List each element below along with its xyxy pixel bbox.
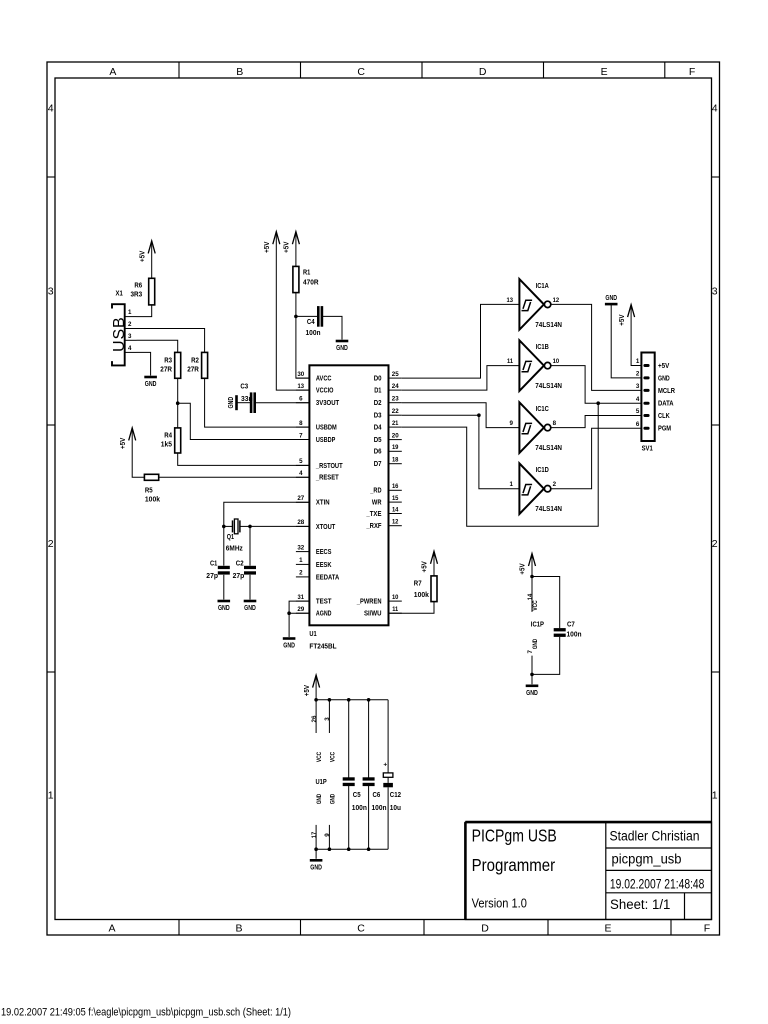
svg-text:9: 9 xyxy=(510,420,514,427)
U1 pin 27 XTIN xyxy=(296,495,330,507)
junction IC1P VCC / C7 xyxy=(530,575,534,579)
resistor R4 xyxy=(175,428,181,453)
svg-text:17: 17 xyxy=(311,831,318,838)
wire +5V to VCCIO pin 13 xyxy=(276,232,309,390)
resistor R5 xyxy=(144,474,158,480)
svg-text:15: 15 xyxy=(392,495,399,502)
svg-text:3: 3 xyxy=(712,286,718,298)
IC1P pin 14 VCC xyxy=(527,577,539,612)
svg-text:1k5: 1k5 xyxy=(161,442,172,449)
capacitor C12 electrolytic xyxy=(383,762,393,788)
svg-text:_RSTOUT: _RSTOUT xyxy=(315,463,343,470)
svg-text:_PWREN: _PWREN xyxy=(356,599,382,606)
wire C3 to 3V3OUT pin 6 xyxy=(256,402,310,404)
wire IC1P to ground xyxy=(531,674,533,684)
U1 pin 23 D2 xyxy=(374,396,402,408)
wire node to Q1 left xyxy=(224,525,233,527)
label R3 27R xyxy=(160,357,172,373)
X1 pin 2 stub xyxy=(125,321,137,328)
svg-text:D6: D6 xyxy=(374,449,382,456)
svg-text:27p: 27p xyxy=(233,573,245,580)
svg-text:A: A xyxy=(109,66,116,78)
U1 pin 20 D5 xyxy=(374,432,402,444)
svg-text:30: 30 xyxy=(297,371,304,378)
svg-text:U1: U1 xyxy=(309,631,316,638)
svg-text:2: 2 xyxy=(299,570,303,577)
wire +5V to U1P rail xyxy=(315,675,317,700)
junction TEST/AGND/GND xyxy=(287,611,291,615)
svg-text:20: 20 xyxy=(392,432,399,439)
label R1 470R xyxy=(303,270,319,287)
svg-text:C5: C5 xyxy=(353,792,361,799)
+5V supply at R7 xyxy=(422,551,438,572)
wire rail to C6 xyxy=(368,700,370,778)
capacitor C5 xyxy=(343,777,355,780)
svg-text:+5V: +5V xyxy=(139,250,146,262)
wire rail to C12 xyxy=(387,700,389,773)
label C7 100n xyxy=(567,622,582,639)
svg-text:+5V: +5V xyxy=(304,685,311,697)
connector SV1 body xyxy=(641,353,654,442)
svg-text:IC1P: IC1P xyxy=(531,622,544,629)
svg-text:1: 1 xyxy=(510,481,514,488)
svg-text:1: 1 xyxy=(712,790,718,802)
wire C2 to ground xyxy=(249,575,251,600)
wire node to ground xyxy=(288,613,290,637)
svg-text:13: 13 xyxy=(507,297,514,304)
U1 pin 11 SI/WU xyxy=(364,606,402,618)
wire R2 to USBDM pin 8 xyxy=(205,378,310,427)
U1P pin 26 VCC xyxy=(311,700,323,762)
wire X1 pin3 to R3 xyxy=(137,340,178,352)
svg-text:2: 2 xyxy=(553,481,557,488)
svg-text:2: 2 xyxy=(48,538,54,550)
wire D2 to IC1C input xyxy=(402,403,520,428)
svg-text:Programmer: Programmer xyxy=(472,855,556,875)
svg-text:100k: 100k xyxy=(414,592,429,599)
svg-text:R2: R2 xyxy=(191,357,199,364)
U1 pin 8 USBDM xyxy=(296,420,337,432)
SV1 pin 2 GND xyxy=(636,371,670,383)
svg-text:2: 2 xyxy=(128,321,132,328)
X1 pin 1 stub xyxy=(125,309,137,316)
svg-text:12: 12 xyxy=(553,297,560,304)
svg-text:PGM: PGM xyxy=(658,426,671,433)
svg-text:Sheet: 1/1: Sheet: 1/1 xyxy=(610,897,670,912)
+5V supply at R5 xyxy=(120,428,136,449)
inverter IC1D 74LS14N xyxy=(510,463,562,514)
ground at C4 xyxy=(336,341,349,352)
svg-text:19: 19 xyxy=(392,444,399,451)
ground at C3 (rotated) xyxy=(228,395,237,410)
U1 pin 29 AGND xyxy=(296,606,332,618)
svg-text:GND: GND xyxy=(658,375,670,382)
svg-text:10u: 10u xyxy=(390,805,401,812)
svg-text:_RESET: _RESET xyxy=(315,475,339,482)
U1 pin 32 EECS xyxy=(296,544,332,556)
wire rail to C5 xyxy=(348,700,350,778)
svg-text:XTIN: XTIN xyxy=(316,500,330,507)
svg-text:19.02.2007 21:49:05 f:\eagle\: 19.02.2007 21:49:05 f:\eagle\picpgm_usb\… xyxy=(1,1007,291,1019)
wire ground to C3 xyxy=(238,402,251,404)
frame row numbers right xyxy=(712,103,718,802)
svg-text:4: 4 xyxy=(712,103,718,115)
svg-text:23: 23 xyxy=(392,396,399,403)
svg-text:EECS: EECS xyxy=(316,549,332,556)
svg-text:7: 7 xyxy=(299,432,303,439)
junction at D3 corner xyxy=(477,413,481,417)
wire IC1D output to SV1 pin 6 PGM xyxy=(551,428,642,489)
junction R3/R4/USBDP xyxy=(176,401,180,405)
drawing frame inner border xyxy=(55,78,712,920)
capacitor C3 xyxy=(250,392,253,413)
junction rail / pin 26 xyxy=(314,698,318,702)
svg-text:R7: R7 xyxy=(414,581,422,588)
title block row lines xyxy=(606,848,712,920)
svg-text:GND: GND xyxy=(244,605,256,612)
svg-text:100n: 100n xyxy=(372,805,387,812)
svg-text:IC1A: IC1A xyxy=(536,283,549,290)
wire node to C1 xyxy=(223,526,225,565)
label C6 100n xyxy=(372,792,387,812)
capacitor C1 xyxy=(218,566,230,569)
wire C7 to GND node xyxy=(532,637,560,675)
svg-text:+5V: +5V xyxy=(520,563,527,575)
svg-text:100k: 100k xyxy=(145,497,160,504)
svg-text:C: C xyxy=(357,66,365,78)
svg-text:IC1C: IC1C xyxy=(536,406,549,413)
svg-text:28: 28 xyxy=(297,519,304,526)
frame row dividers right xyxy=(712,177,720,672)
wire IC1B output to DATA node xyxy=(551,366,598,404)
svg-text:GND: GND xyxy=(310,865,322,872)
capacitor C2 xyxy=(244,566,256,569)
wire C1 to ground xyxy=(223,575,225,600)
svg-text:_RD: _RD xyxy=(370,488,382,495)
svg-text:3: 3 xyxy=(128,333,132,340)
svg-text:EEDATA: EEDATA xyxy=(316,574,339,581)
svg-text:3R3: 3R3 xyxy=(131,292,143,299)
svg-text:D: D xyxy=(481,922,489,934)
X1 pin 4 stub xyxy=(125,345,137,352)
title block divider xyxy=(605,822,607,919)
svg-text:13: 13 xyxy=(298,383,305,390)
svg-text:D0: D0 xyxy=(374,376,382,383)
svg-text:+5V: +5V xyxy=(422,561,429,573)
crystal Q1 xyxy=(233,519,240,534)
ground at X1 pin4 xyxy=(144,377,157,388)
svg-text:B: B xyxy=(236,66,243,78)
junction gnd rail / pin 17 xyxy=(314,847,318,851)
svg-text:USB: USB xyxy=(111,316,128,352)
U1 pin 21 D4 xyxy=(374,420,402,432)
svg-text:IC1D: IC1D xyxy=(536,467,549,474)
wire Q1 right to node xyxy=(240,525,250,527)
U1 pin 28 XTOUT xyxy=(296,519,336,531)
svg-text:GND: GND xyxy=(218,605,230,612)
svg-text:WR: WR xyxy=(372,500,382,507)
svg-text:R3: R3 xyxy=(164,357,172,364)
U1 pin 19 D6 xyxy=(374,444,402,456)
U1 pin 18 D7 xyxy=(374,457,402,469)
svg-text:VCC: VCC xyxy=(532,600,539,611)
wire C5 to gnd rail xyxy=(348,786,350,849)
U1P GND rail xyxy=(316,848,388,850)
U1 pin 2 EEDATA xyxy=(296,570,339,582)
svg-text:74LS14N: 74LS14N xyxy=(535,445,562,452)
svg-text:FT245BL: FT245BL xyxy=(309,644,337,651)
frame column dividers bottom xyxy=(179,920,671,936)
svg-text:14: 14 xyxy=(527,593,534,600)
svg-text:TEST: TEST xyxy=(316,599,332,606)
svg-text:R5: R5 xyxy=(145,487,153,494)
svg-text:1: 1 xyxy=(299,557,303,564)
svg-text:6: 6 xyxy=(299,396,303,403)
svg-text:SI/WU: SI/WU xyxy=(364,611,382,618)
svg-text:GND: GND xyxy=(336,345,348,352)
svg-text:4: 4 xyxy=(48,103,54,115)
wire node to AGND pin 29 xyxy=(289,612,309,614)
U1 pin 14 TXE xyxy=(366,506,402,518)
junction rail / pin 3 xyxy=(328,698,332,702)
svg-text:3V3OUT: 3V3OUT xyxy=(316,400,340,407)
wire R7 to SI/WU pin 11 xyxy=(389,602,435,614)
svg-text:21: 21 xyxy=(392,420,399,427)
svg-text:1: 1 xyxy=(128,309,132,316)
svg-text:100n: 100n xyxy=(306,330,321,337)
svg-text:+5V: +5V xyxy=(120,437,127,449)
U1 pin 16 RD xyxy=(370,483,402,495)
wire ground to SV1 pin 2 xyxy=(611,304,641,378)
+5V supply at U1P xyxy=(304,675,320,696)
junction XTIN/Q1/C1 xyxy=(222,525,226,529)
svg-text:F: F xyxy=(704,922,710,934)
svg-text:470R: 470R xyxy=(303,280,319,287)
svg-text:74LS14N: 74LS14N xyxy=(535,383,562,390)
wire DATA node to SV1 pin 4 xyxy=(598,402,641,404)
svg-text:picpgm_usb: picpgm_usb xyxy=(612,851,682,866)
label C4 100n xyxy=(306,319,321,337)
svg-text:D1: D1 xyxy=(374,388,381,395)
svg-text:DATA: DATA xyxy=(658,401,674,408)
wire C6 to gnd rail xyxy=(368,786,370,849)
frame column letters top xyxy=(109,66,695,78)
wire X1 pin4 to ground xyxy=(137,352,151,375)
svg-text:Q1: Q1 xyxy=(227,534,234,541)
capacitor C4 xyxy=(317,306,320,327)
svg-text:100n: 100n xyxy=(352,805,367,812)
SV1 pin 1 +5V xyxy=(636,358,670,370)
junction gnd rail / C6 xyxy=(367,847,371,851)
svg-text:VCC: VCC xyxy=(316,751,323,762)
+5V supply to VCCIO xyxy=(264,232,280,253)
frame column letters bottom xyxy=(108,922,710,934)
svg-text:MCLR: MCLR xyxy=(658,388,675,395)
svg-text:+5V: +5V xyxy=(658,363,670,370)
wire +5V to IC1P VCC xyxy=(531,554,533,577)
svg-text:27: 27 xyxy=(297,495,304,502)
wire IC1C output to SV1 pin 5 CLK xyxy=(551,416,642,428)
svg-text:25: 25 xyxy=(392,371,399,378)
SV1 pin 4 DATA xyxy=(636,396,674,408)
svg-text:+5V: +5V xyxy=(619,314,626,326)
label C5 100n xyxy=(352,792,367,812)
svg-text:11: 11 xyxy=(392,606,399,613)
svg-text:GND: GND xyxy=(532,638,539,649)
title block outline xyxy=(465,822,711,919)
label R2 27R xyxy=(187,357,199,373)
wire node to XTOUT pin 28 xyxy=(250,525,309,527)
U1 pin 30 AVCC xyxy=(296,371,332,383)
U1P pin 9 GND xyxy=(324,793,336,849)
capacitor C7 xyxy=(554,628,566,631)
svg-text:3: 3 xyxy=(636,383,640,390)
resistor R1 xyxy=(293,266,299,292)
wire node to USBDP pin 7 xyxy=(178,403,310,439)
svg-text:C6: C6 xyxy=(373,792,381,799)
svg-text:4: 4 xyxy=(128,345,132,352)
wire C4 to ground xyxy=(323,316,342,339)
svg-text:19.02.2007 21:48:48: 19.02.2007 21:48:48 xyxy=(610,876,705,891)
label U1 FT245BL xyxy=(309,631,337,651)
svg-text:A: A xyxy=(108,922,115,934)
svg-text:C12: C12 xyxy=(390,792,401,799)
wire R5 to RESET pin 4 xyxy=(159,476,310,478)
svg-text:27p: 27p xyxy=(206,573,218,580)
svg-text:GND: GND xyxy=(329,793,336,804)
svg-text:+5V: +5V xyxy=(264,241,271,253)
U1 pin 15 WR xyxy=(372,495,402,507)
ground at IC1P xyxy=(526,686,539,697)
svg-text:3: 3 xyxy=(48,286,54,298)
svg-text:27R: 27R xyxy=(160,367,172,374)
wire R1 to AVCC pin 30 xyxy=(296,293,310,379)
svg-text:USBDP: USBDP xyxy=(316,437,336,444)
junction DATA node xyxy=(596,401,600,405)
wire D0 to IC1A input xyxy=(402,304,520,378)
svg-text:VCC: VCC xyxy=(329,751,336,762)
svg-text:24: 24 xyxy=(392,383,399,390)
svg-text:SV1: SV1 xyxy=(642,446,653,453)
junction R1/C4/AVCC xyxy=(294,315,298,319)
USB connector X1 body xyxy=(112,304,125,365)
svg-text:C2: C2 xyxy=(236,560,244,567)
resistor R2 xyxy=(202,352,208,378)
svg-text:D5: D5 xyxy=(374,437,382,444)
svg-text:2: 2 xyxy=(636,371,640,378)
IC1P pin 7 GND xyxy=(527,638,539,674)
svg-text:3: 3 xyxy=(324,717,331,721)
svg-text:6: 6 xyxy=(636,421,640,428)
svg-text:5: 5 xyxy=(636,408,640,415)
U1 pin 12 RXF xyxy=(366,519,402,531)
svg-text:32: 32 xyxy=(297,544,304,551)
wire X1 pin2 to R2 xyxy=(137,329,205,353)
wire node to C2 xyxy=(249,526,251,565)
wire +5V to R7 xyxy=(433,551,435,576)
SV1 pin 3 MCLR xyxy=(636,383,675,395)
wire +5V to R5 xyxy=(132,428,144,477)
svg-text:9: 9 xyxy=(324,833,331,837)
svg-text:IC1B: IC1B xyxy=(536,344,549,351)
wire XTIN pin 27 to crystal xyxy=(224,502,310,526)
junction rail / C6 xyxy=(367,698,371,702)
svg-text:D: D xyxy=(479,66,487,78)
U1 pin 7 USBDP xyxy=(296,432,336,444)
svg-text:C1: C1 xyxy=(210,560,217,567)
svg-text:16: 16 xyxy=(392,483,399,490)
svg-text:GND: GND xyxy=(145,381,157,388)
inverter IC1A 74LS14N xyxy=(507,279,563,330)
label C12 10u xyxy=(390,792,401,812)
label R4 1k5 xyxy=(161,432,172,448)
+5V supply at R1 xyxy=(284,232,300,253)
svg-text:4: 4 xyxy=(299,470,303,477)
svg-text:GND: GND xyxy=(316,793,323,804)
label R7 100k xyxy=(414,581,429,599)
svg-text:D3: D3 xyxy=(374,413,382,420)
svg-text:14: 14 xyxy=(392,506,399,513)
svg-text:10: 10 xyxy=(553,358,560,365)
wire TEST pin 31 to node xyxy=(289,601,309,613)
capacitor C6 xyxy=(363,777,375,780)
svg-text:+: + xyxy=(383,762,387,769)
svg-text:X1: X1 xyxy=(116,291,123,298)
svg-text:100n: 100n xyxy=(567,631,582,638)
svg-text:+5V: +5V xyxy=(284,241,291,253)
svg-text:Stadler Christian: Stadler Christian xyxy=(610,829,700,844)
label C2 27p xyxy=(233,560,245,579)
wire R4 to RSTOUT pin 5 xyxy=(178,453,310,465)
label R5 100k xyxy=(145,487,160,503)
wire D1 to IC1B input xyxy=(402,366,520,391)
svg-text:31: 31 xyxy=(298,594,305,601)
svg-text:GND: GND xyxy=(526,690,538,697)
wire VCC node to C7 xyxy=(532,577,560,629)
ground at C2 xyxy=(244,601,257,612)
svg-text:C4: C4 xyxy=(307,319,315,326)
label C3 33n xyxy=(240,383,252,403)
resistor R6 xyxy=(149,278,155,305)
svg-text:11: 11 xyxy=(507,358,514,365)
svg-text:F: F xyxy=(689,66,695,78)
resistor R7 xyxy=(431,576,437,602)
svg-text:E: E xyxy=(604,922,611,934)
svg-text:R1: R1 xyxy=(303,270,310,277)
title text PICPgm USB Programmer xyxy=(472,826,557,876)
svg-text:D7: D7 xyxy=(374,461,382,468)
frame column dividers top xyxy=(179,62,665,78)
svg-text:EESK: EESK xyxy=(316,562,332,569)
wire +5V to SV1 pin 1 xyxy=(631,305,641,366)
svg-text:18: 18 xyxy=(392,457,399,464)
svg-text:C3: C3 xyxy=(240,383,248,390)
svg-text:8: 8 xyxy=(299,420,303,427)
drawing frame outer border xyxy=(47,62,720,935)
+5V supply at R6 xyxy=(139,241,155,262)
wire C12 to gnd rail xyxy=(387,787,389,849)
svg-text:8: 8 xyxy=(553,420,557,427)
svg-text:74LS14N: 74LS14N xyxy=(535,322,562,329)
svg-text:10: 10 xyxy=(392,594,399,601)
svg-text:GND: GND xyxy=(605,295,617,302)
U1 pin 1 EESK xyxy=(296,557,332,569)
inverter IC1B 74LS14N xyxy=(507,340,562,391)
svg-text:D2: D2 xyxy=(374,400,382,407)
U1 pin 13 VCCIO xyxy=(296,383,334,395)
junction Q1/XTOUT/C2 xyxy=(248,525,252,529)
svg-text:USBDM: USBDM xyxy=(316,425,337,432)
